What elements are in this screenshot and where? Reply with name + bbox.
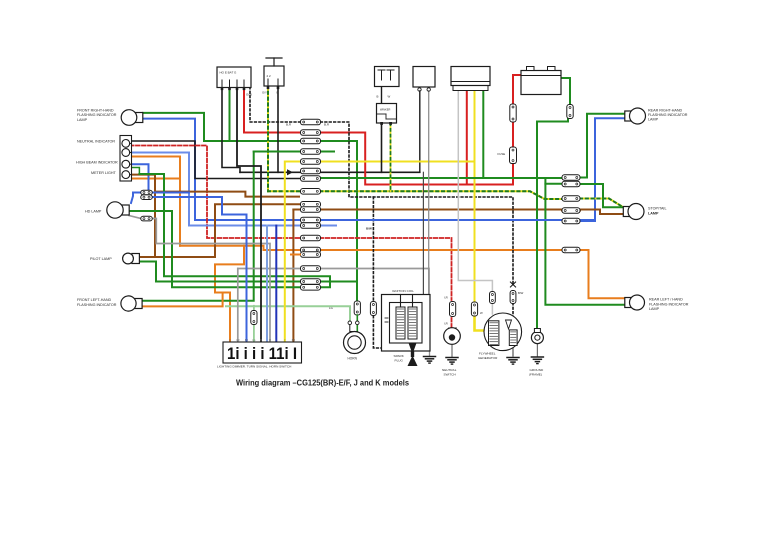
wire brown meter light riser	[130, 175, 155, 257]
wire red battery lead	[513, 75, 521, 104]
flywheel generator G1	[484, 313, 522, 351]
wire green horn riser	[356, 141, 358, 302]
wire green box6 riser	[482, 91, 484, 178]
wire blue high-beam bulb drop	[130, 164, 149, 190]
wire blue front-right indicator long run to rear-right	[143, 118, 627, 220]
connector right green pair row2	[562, 181, 580, 186]
label B,R right	[324, 123, 330, 127]
wire gray headlamp lead	[129, 216, 141, 219]
lamp rear right-hand flashing indicator	[625, 108, 646, 124]
label ground frame	[529, 368, 544, 377]
high beam bulb	[122, 149, 132, 157]
junction cross	[510, 282, 515, 287]
connector center yellow-green	[301, 189, 321, 195]
arrow black bus	[287, 169, 293, 175]
svg-text:I,R: I,R	[444, 296, 448, 300]
terminal dots winker relay	[380, 122, 392, 125]
neutral switch S1	[444, 328, 461, 345]
wire blue row2 stub	[318, 225, 336, 227]
connector yellow generator	[471, 302, 477, 316]
lamp rear left-hand flashing indicator	[625, 295, 645, 310]
svg-text:FUSE: FUSE	[498, 152, 506, 156]
wire orange meter riser	[130, 157, 180, 246]
svg-text:HORN: HORN	[348, 357, 358, 361]
svg-text:GENERATOR: GENERATOR	[478, 356, 498, 360]
svg-text:PLUG: PLUG	[395, 359, 404, 363]
wire green short conn4	[254, 151, 334, 153]
connector right yellow-green	[562, 196, 580, 201]
svg-text:GR: GR	[236, 340, 240, 342]
connector center red-dash	[301, 235, 321, 241]
svg-text:FLASHING INDICATOR: FLASHING INDICATOR	[77, 303, 117, 307]
label horn	[348, 357, 358, 361]
label flywheel generator	[478, 351, 498, 360]
connector center green pair	[301, 279, 321, 290]
wire horn stubs	[348, 315, 359, 332]
label B W	[377, 95, 391, 99]
ground neutral switch	[446, 358, 458, 365]
wire dotted coil branch lower	[373, 316, 396, 348]
wire white generator lead	[491, 303, 493, 314]
svg-text:REAR LEFT / HAND: REAR LEFT / HAND	[649, 298, 683, 302]
wire gray ground frame stem	[536, 344, 538, 357]
svg-text:LIGHTING DIMMER. TURN SIGNA: LIGHTING DIMMER. TURN SIGNAL. HORN SWITC…	[217, 364, 291, 368]
svg-text:BR: BR	[292, 340, 296, 342]
terminal dots box2	[267, 87, 280, 90]
label pilot lamp	[90, 257, 112, 261]
connector pair headlamp blue	[141, 190, 153, 199]
label W	[480, 311, 483, 315]
svg-text:B,R: B,R	[286, 123, 292, 127]
wire yellow switch to generator	[285, 162, 475, 344]
connector headlamp gray	[141, 216, 153, 221]
connector right brown	[562, 208, 580, 213]
connector orange row2 stub	[291, 254, 300, 256]
svg-text:FLYWHEEL: FLYWHEEL	[479, 351, 496, 355]
wire green rear-left riser	[545, 178, 627, 305]
wire black bus drop to coil	[422, 172, 424, 294]
svg-text:FLASHING INDICATOR: FLASHING INDICATOR	[648, 113, 688, 117]
wire black box2 drop	[277, 86, 279, 172]
label head lamp	[85, 209, 102, 213]
label LG	[329, 306, 334, 310]
wire black box1 a	[222, 87, 240, 172]
high beam indicator bulb	[122, 160, 132, 168]
box U1 ignition switch	[217, 67, 251, 88]
ground frame eyelet	[531, 329, 543, 344]
connector right blue	[562, 218, 580, 223]
box U3 ignition unit	[375, 67, 400, 87]
spark plug arrows	[408, 343, 418, 366]
wire green main bus	[321, 177, 563, 179]
connector center dotted	[301, 119, 321, 125]
wire orange staircase to switch	[215, 246, 244, 343]
wire green front-left lamp	[142, 152, 254, 301]
label I R upper	[444, 296, 448, 300]
wire green to stop-tail	[580, 184, 624, 207]
label high beam indicator	[76, 160, 118, 164]
wire black relay drop	[381, 123, 383, 172]
wire blue bullets to riser	[152, 192, 189, 194]
wire blue switch loop	[152, 197, 247, 343]
connector green battery	[567, 105, 573, 119]
lamp pilot	[123, 253, 140, 264]
connector right orange	[562, 247, 580, 252]
label stop tail lamp	[648, 207, 667, 216]
svg-text:SPARK: SPARK	[394, 354, 405, 358]
svg-text:FRONT RIGHT-HAND: FRONT RIGHT-HAND	[77, 109, 114, 113]
connector center red	[301, 130, 321, 136]
label switch box	[217, 364, 291, 368]
wire orange bus upper	[180, 246, 562, 250]
wire red box6 drop	[466, 91, 468, 185]
box U4 winker relay	[377, 104, 397, 124]
connector horn riser	[354, 301, 360, 315]
svg-text:W: W	[388, 95, 391, 99]
svg-text:B: B	[277, 91, 279, 95]
svg-text:WINKER: WINKER	[380, 108, 391, 112]
svg-text:PILOT LAMP: PILOT LAMP	[90, 257, 112, 261]
wire blue headlamp hook	[131, 193, 141, 204]
svg-text:2 2: 2 2	[267, 74, 272, 78]
wire green battery riser	[537, 119, 568, 331]
svg-text:(FRAME): (FRAME)	[529, 373, 542, 377]
wire dotted coil branch	[372, 197, 374, 301]
svg-text:FLASHING INDICATOR: FLASHING INDICATOR	[649, 302, 689, 306]
wire yellow-green to stop-tail	[580, 199, 622, 207]
wire lightgreen horn run	[226, 306, 350, 320]
connector center black pair	[301, 168, 321, 181]
wire gray switch riser	[237, 269, 239, 344]
wire dotted generator entry	[512, 303, 514, 330]
wire black riser to CDI box5 left	[419, 91, 421, 172]
ignition coil T1	[382, 295, 431, 352]
wire gray switch bus	[238, 268, 300, 270]
connector center blue pair	[301, 217, 321, 228]
svg-text:LAMP: LAMP	[649, 307, 660, 311]
label ignition coil	[392, 289, 414, 293]
wire brown right stub	[562, 210, 580, 212]
label front right-hand flashing indicator	[77, 109, 117, 122]
svg-text:LAMP: LAMP	[648, 211, 659, 215]
connector center yellow	[301, 159, 321, 165]
svg-text:REAR RIGHT-HAND: REAR RIGHT-HAND	[648, 108, 683, 112]
label spark plug	[394, 354, 405, 363]
fuse F1	[498, 147, 517, 164]
wire dotted generator drop	[512, 291, 514, 303]
svg-text:STOP/TAIL: STOP/TAIL	[648, 207, 667, 211]
svg-text:B/W: B/W	[518, 291, 524, 295]
box U5 CDI unit	[413, 67, 435, 92]
wire blue long run right	[318, 219, 562, 221]
label front left-hand flashing indicator	[77, 298, 117, 307]
svg-text:LAMP: LAMP	[648, 118, 659, 122]
meter cluster frame	[120, 136, 132, 182]
wire dotted ignition switch run	[250, 87, 513, 285]
wire green battery lead	[561, 78, 570, 105]
svg-text:BU: BU	[245, 340, 249, 342]
connector center orange pair	[301, 247, 321, 257]
arrow neutral switch	[448, 328, 457, 335]
wire blue rear-right stub	[580, 220, 595, 222]
horn	[344, 332, 366, 354]
wire white box6 drop	[458, 91, 492, 292]
wire yellow-green relay drop	[390, 123, 392, 191]
wire black box1 b to switch	[237, 87, 261, 343]
wire red fuse to battery	[512, 123, 514, 147]
lamp stop and tail	[623, 204, 644, 220]
wire red-dash below bullet to switch	[451, 318, 453, 327]
caption	[236, 379, 409, 388]
connector center green A	[301, 138, 321, 144]
wire gray headlamp to bus	[152, 219, 270, 344]
wire red-dash neutral indicator to neutral switch	[130, 146, 452, 301]
wire gray neutral switch ground	[451, 344, 453, 357]
svg-text:NEUTRAL INDICATOR: NEUTRAL INDICATOR	[77, 140, 115, 144]
svg-text:W: W	[480, 311, 483, 315]
svg-text:NEUTRAL: NEUTRAL	[442, 368, 457, 372]
ground flywheel generator	[507, 358, 519, 365]
connector center gray	[301, 266, 321, 272]
wire orange rear-left riser	[580, 250, 627, 298]
svg-text:METER LIGHT: METER LIGHT	[91, 171, 117, 175]
wire yellow-green main run	[268, 191, 562, 199]
ground frame symbol	[531, 357, 543, 364]
box U6 regulator rectifier	[451, 67, 490, 91]
label rear right-hand flashing indicator	[648, 108, 688, 121]
terminal dots ignition switch	[221, 88, 246, 91]
wire gray coil ground	[429, 351, 431, 356]
wire brown long run to stop-tail	[293, 210, 623, 215]
connector red-dash neutral	[450, 302, 456, 317]
label neutral indicator	[77, 140, 115, 144]
battery BAT1	[521, 67, 561, 95]
svg-text:HD LAMP: HD LAMP	[85, 209, 102, 213]
wire blue meter bulb2 riser	[130, 153, 300, 226]
switch terminal letters	[229, 340, 295, 342]
wire orange front-left lamp	[142, 293, 223, 307]
wire green ignition switch drop	[229, 87, 231, 141]
wire gray bus to coil	[321, 269, 429, 295]
box U2 switch with antenna	[264, 58, 284, 86]
lamp front right-hand flashing indicator	[121, 110, 143, 126]
connector dotted generator	[510, 291, 516, 304]
label G/Y B	[262, 91, 279, 95]
wire lightgreen switch drop	[253, 306, 255, 311]
svg-text:G/Y: G/Y	[262, 91, 267, 95]
switch box lighting dimmer turn signal horn	[223, 342, 302, 363]
wire green pilot lamp riser	[137, 262, 300, 282]
svg-text:SWITCH: SWITCH	[444, 373, 456, 377]
wire yellow-green box2 drop	[267, 86, 269, 191]
wire red ignition to battery	[244, 87, 513, 185]
label neutral switch	[442, 368, 457, 377]
connector dotted coil	[370, 302, 376, 316]
label G/W	[246, 93, 252, 97]
wire lightblue switch riser	[266, 226, 268, 344]
wire brown pilot lamp bus	[137, 204, 300, 257]
wire gray cdi right to coil	[428, 91, 430, 295]
wire brown switch riser	[292, 210, 294, 344]
svg-text:B/W: B/W	[366, 227, 372, 231]
wire lightgreen below bullet	[253, 324, 255, 343]
wire green row1 to horn junction	[321, 281, 357, 283]
wire green row2 step	[545, 183, 562, 185]
label I R lower	[444, 322, 448, 326]
label B/W	[366, 227, 372, 231]
wire black box3 to relay	[381, 87, 383, 104]
label B,R left	[286, 123, 292, 127]
wire green headlamp riser	[129, 174, 330, 287]
wire yellow below bullet	[475, 316, 490, 331]
svg-text:B,R: B,R	[324, 123, 330, 127]
svg-text:O: O	[229, 340, 231, 342]
wire gray generator ground	[512, 346, 514, 357]
wire black neutral indicator bus	[130, 141, 300, 179]
neutral indicator bulb	[122, 140, 132, 148]
wire brown stepped bus	[155, 192, 299, 197]
wire orange bulb4 branch	[130, 178, 180, 180]
ground coil	[424, 357, 436, 364]
svg-text:1i i i i 11i I: 1i i i i 11i I	[227, 345, 297, 363]
connector center brown pair	[301, 202, 321, 213]
wire yellow box6 to generator	[474, 91, 476, 302]
svg-text:HO E BAT G: HO E BAT G	[220, 71, 238, 75]
svg-text:GROUND: GROUND	[530, 368, 545, 372]
svg-text:I,R: I,R	[444, 322, 448, 326]
connector red battery	[510, 104, 516, 122]
svg-text:FRONT LEFT-HAND: FRONT LEFT-HAND	[77, 298, 111, 302]
lamp front left-hand flashing indicator	[121, 296, 142, 311]
svg-text:HIGH BEAM INDICATOR: HIGH BEAM INDICATOR	[76, 160, 118, 164]
svg-text:B: B	[377, 95, 379, 99]
label rear left-hand flashing indicator	[649, 298, 689, 311]
wire green front-right indicator to horn riser	[143, 113, 357, 141]
svg-text:G/W: G/W	[246, 93, 252, 97]
wire green meter hook	[131, 168, 139, 175]
wire darkblue switch riser	[275, 226, 277, 344]
label meter light	[91, 171, 117, 175]
meter light bulb	[122, 171, 132, 179]
lamp head lamp	[107, 202, 129, 218]
connector right green pair row1	[562, 175, 580, 180]
svg-text:FLASHING INDICATOR: FLASHING INDICATOR	[77, 113, 117, 117]
svg-text:LAMP: LAMP	[77, 118, 88, 122]
label B/W gen	[518, 291, 524, 295]
svg-text:IGNITION COIL: IGNITION COIL	[392, 289, 414, 293]
connector center green B	[301, 149, 321, 155]
wire black bus row1 long	[240, 171, 420, 173]
connector lightgreen switch	[251, 311, 257, 325]
svg-text:LG: LG	[252, 340, 255, 342]
svg-text:Wiring diagram –CG125(BR)-E/: Wiring diagram –CG125(BR)-E/F, J and K m…	[236, 379, 409, 388]
connector white generator	[490, 292, 496, 304]
wire green rear-right riser	[580, 114, 627, 178]
